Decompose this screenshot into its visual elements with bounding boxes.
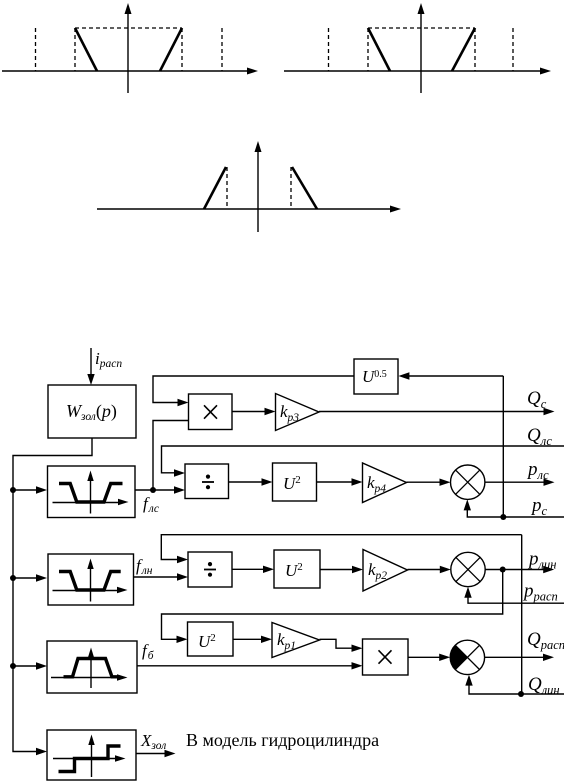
NL2 inner x-axis (53, 587, 128, 593)
svg-text:Qрасп: Qрасп (527, 629, 564, 652)
wire U2 row3 output to gain kp1 (233, 638, 266, 640)
svg-text:Qлс: Qлс (527, 425, 552, 448)
NL block 2 dead-zone box (48, 554, 134, 605)
block U2 row2 (274, 550, 320, 588)
graph 3 dashed vertical right (290, 167, 292, 209)
arrowhead into gain kp4 (352, 478, 363, 485)
wire kp4 output to multiplier circle C1 (407, 481, 445, 483)
arrowhead into circle C2 (440, 566, 451, 573)
arrowhead p_ls output (544, 479, 555, 486)
graph 1 x-axis (2, 68, 258, 75)
graph 2 x-axis (284, 68, 551, 75)
X1 cross symbol (204, 405, 217, 418)
graph 1 y-axis (125, 3, 132, 93)
wire right bus Q_lin feedback vertical (521, 535, 523, 694)
NL1 inner y-axis (87, 471, 93, 514)
arrowhead into gain kp1 (261, 636, 272, 643)
graph 3 x-axis (97, 206, 401, 213)
wire right bus p_c up to U^0.5 (502, 376, 504, 517)
wire p_lin feedback down-left to U2 row3 input (162, 570, 503, 640)
graph 1 solid right slant (160, 28, 182, 71)
wire W output down-left to bus (13, 438, 92, 752)
graph 2 solid left slant (368, 28, 390, 71)
block U^0.5 (354, 359, 398, 394)
svg-text:kp2: kp2 (368, 560, 387, 582)
wire D1 output to U2 row1 (229, 481, 267, 483)
wire Q_lin feedback to divider D2 upper input (161, 535, 521, 560)
wire bus to NL3 (13, 665, 41, 667)
arrowhead into U2 row2 (263, 566, 274, 573)
wire C1 output p_ls (485, 481, 547, 483)
graph 3 dashed vertical left (226, 167, 228, 209)
multiplier circle C3 with filled left sector (450, 640, 484, 674)
arrowhead into U2 row3 (177, 636, 188, 643)
graph 1 solid left slant (75, 28, 97, 71)
arrowhead into divider D1 lower input (174, 486, 185, 493)
arrowhead into NL1 (36, 486, 47, 493)
wire U2 row2 output to gain kp2 (320, 569, 357, 571)
arrowhead into C1 bottom (464, 499, 471, 510)
svg-text:Qс: Qс (527, 388, 547, 411)
multiplier circle C1 (451, 465, 485, 499)
wire Q_c output line (319, 411, 547, 413)
block U2 row3 (188, 622, 234, 656)
graph 2 dashed vertical right inner (474, 28, 476, 71)
input arrow i_rasp (87, 348, 94, 385)
NL4 inner y-axis (88, 735, 94, 778)
wire p_c input line (503, 516, 564, 518)
wire p_rasp input line to C2 bottom (468, 593, 564, 603)
arrowhead Q_rasp output (543, 654, 554, 661)
svg-text:pрасп: pрасп (522, 581, 558, 604)
arrowhead into U^0.5 right side (398, 372, 409, 379)
arrowhead into multiplier X3 second input (352, 662, 363, 669)
svg-text:fлн: fлн (136, 556, 153, 577)
svg-text:pс: pс (530, 495, 548, 518)
svg-text:U0.5: U0.5 (362, 367, 387, 386)
D1 divide symbol (202, 475, 214, 490)
wire kp2 output to multiplier circle C2 (408, 569, 445, 571)
wire NL1 output to f_ls node (135, 489, 153, 491)
block divider D2 (188, 552, 232, 587)
wire p_c to C1 bottom input (467, 506, 503, 517)
graph 2 solid right slant (452, 28, 475, 71)
wire f_ls node to divider D1 lower input (153, 489, 178, 491)
graph 1 dashed top horizontal (75, 27, 182, 29)
NL2 dead-zone curve (59, 572, 121, 591)
node dot bus row2 (10, 575, 16, 581)
svg-text:pлс: pлс (526, 459, 549, 482)
graph 1 dashed vertical left outer (35, 28, 37, 71)
NL block 1 dead-zone box (48, 466, 136, 518)
block W_zol(p) U1 (48, 385, 136, 438)
multiplier circle C2 (451, 552, 485, 586)
gain triangle kp2 (363, 550, 408, 592)
arrowhead Q_c output (544, 408, 555, 415)
block multiplier X3 (363, 639, 409, 675)
wire U2 row1 output to gain kp4 (317, 481, 357, 483)
graph 3 y-axis (255, 141, 262, 232)
wire U^0.5 output to multiplier X1 first input (153, 376, 354, 403)
graph 1 dashed vertical right inner (181, 28, 183, 71)
arrowhead into divider D2 lower input (177, 573, 188, 580)
graph 2 dashed vertical left inner (367, 28, 369, 71)
arrowhead into C3 bottom (465, 675, 472, 686)
wire X3 output to circle C3 (408, 656, 444, 658)
svg-text:В модель гидроцилиндра: В модель гидроцилиндра (186, 730, 379, 750)
wire X1 output to gain kp3 (232, 411, 269, 413)
svg-text:kp1: kp1 (277, 630, 296, 652)
arrowhead into U2 row1 (262, 478, 273, 485)
svg-text:U2: U2 (283, 474, 301, 493)
NL3 inner y-axis (88, 648, 94, 689)
gain triangle kp4 (363, 463, 407, 503)
D2 divide symbol (204, 562, 216, 577)
NL block 4 relay box (47, 730, 136, 780)
NL4 inner x-axis (53, 755, 126, 761)
wire f_ls node up to multiplier X1 second input (153, 421, 189, 491)
graph 2 y-axis (418, 3, 425, 93)
svg-text:Qлин: Qлин (528, 674, 560, 697)
arrowhead into circle C1 (440, 479, 451, 486)
NL1 inner x-axis (53, 499, 129, 505)
arrowhead into NL3 (36, 662, 47, 669)
svg-text:pлин: pлин (527, 549, 556, 572)
NL block 3 bump box (47, 641, 137, 693)
NL3 bump curve (64, 659, 118, 677)
arrowhead into circle C3 (439, 654, 450, 661)
wire bus to NL1 (13, 489, 41, 491)
svg-text:Wзол(p): Wзол(p) (66, 401, 117, 423)
X3 cross symbol (379, 650, 392, 663)
wire NL3 output f_b to multiplier X3 second input (137, 665, 356, 667)
graph 1 dashed vertical right outer (221, 28, 223, 71)
gain triangle kp1 (272, 623, 320, 658)
node dot bus row1 (10, 487, 16, 493)
arrowhead X_zol output (165, 750, 176, 757)
node dot Q_lin junction (518, 691, 524, 697)
node dot bus row3 (10, 663, 16, 669)
NL4 relay step curve (59, 746, 121, 772)
NL3 inner x-axis (51, 674, 128, 680)
svg-text:Xзол: Xзол (140, 731, 166, 752)
wire right bus into U^0.5 input (409, 375, 503, 377)
graph 3 solid left slant (204, 167, 226, 209)
arrowhead into multiplier X1 first input (178, 399, 189, 406)
gain triangle kp3 (276, 394, 320, 431)
svg-text:iрасп: iрасп (95, 349, 122, 370)
svg-text:U2: U2 (285, 561, 303, 580)
block multiplier X1 (189, 394, 233, 430)
arrowhead into C2 bottom (464, 587, 471, 598)
svg-text:kp3: kp3 (280, 402, 299, 424)
arrowhead into multiplier X3 first input (352, 645, 363, 652)
arrowhead p_lin output (543, 566, 554, 573)
graph 2 dashed vertical left outer (328, 28, 330, 71)
node dot f_ls junction (150, 487, 156, 493)
NL2 inner y-axis (87, 559, 93, 602)
svg-text:fб: fб (142, 641, 155, 662)
wire bus to NL2 (13, 577, 41, 579)
arrowhead into gain kp2 (352, 566, 363, 573)
wire C3 output Q_rasp (485, 656, 547, 658)
node dot p_c junction (500, 514, 506, 520)
wire Q_ls line with tap down to divider D1 upper input (162, 446, 564, 473)
arrowhead into NL2 (36, 574, 47, 581)
svg-text:U2: U2 (198, 632, 216, 651)
arrowhead into divider D2 upper input (177, 556, 188, 563)
wire NL4 output X_zol (136, 753, 169, 755)
wire C2 output p_lin (485, 569, 547, 571)
NL1 dead-zone curve (59, 484, 123, 503)
wire Q_lin input line to C3 bottom (469, 681, 564, 694)
wire NL2 output f_ln to divider D2 lower input (134, 576, 182, 578)
wire kp1 output jog to multiplier X3 first input (320, 639, 357, 648)
block divider D1 (185, 464, 229, 499)
wire D2 output to U2 row2 (232, 568, 268, 570)
graph 1 dashed vertical left inner (74, 28, 76, 71)
graph 2 dashed top horizontal (368, 27, 475, 29)
graph 2 dashed vertical right outer (512, 28, 514, 71)
svg-text:kp4: kp4 (367, 473, 386, 495)
arrowhead into divider D1 upper input (174, 469, 185, 476)
arrowhead into gain kp3 (265, 408, 276, 415)
svg-text:fлс: fлс (143, 494, 159, 515)
graph 3 solid right slant (292, 167, 317, 209)
node dot p_lin junction (500, 567, 506, 573)
block U2 row1 (273, 463, 317, 501)
arrowhead into relay box row4 (36, 748, 47, 755)
